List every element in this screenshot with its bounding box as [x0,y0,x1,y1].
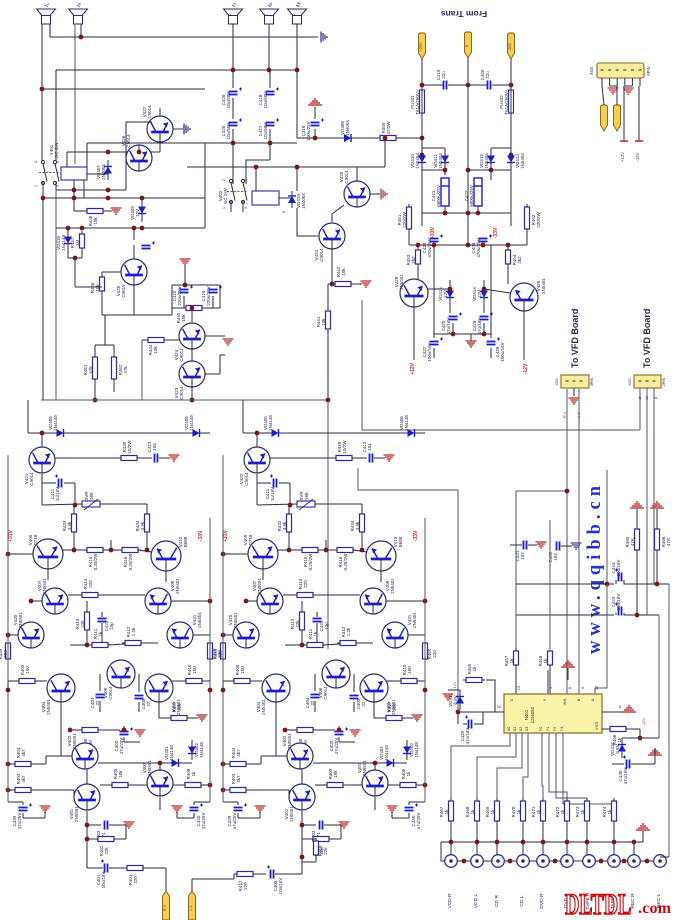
node [140,226,145,231]
svg-text:1u/16V: 1u/16V [270,487,275,501]
resistor R405 [109,783,131,788]
wire [484,289,510,293]
transistor V402 [72,743,98,769]
node [73,503,78,508]
jack VCD L [471,855,484,868]
jack VCD R [445,855,458,868]
node [451,332,456,337]
capacitor C428 [266,88,280,95]
wire [325,540,327,550]
wire XS5 pin [616,78,618,86]
node [6,762,11,767]
resistor R433 [287,511,292,535]
svg-text:47u/16V: 47u/16V [477,318,482,335]
svg-text:150: 150 [192,666,197,674]
svg-text:47u/16V: 47u/16V [623,768,628,785]
resistor R410 [183,679,205,684]
ground R407 [412,715,423,721]
svg-text:X: X [509,698,514,701]
transistor V407 [42,588,68,614]
svg-text:To VFD Board: To VFD Board [642,309,652,368]
wire [656,509,658,528]
svg-text:470u/25V: 470u/25V [427,238,432,257]
node [509,153,514,158]
node [645,859,650,864]
svg-text:U: U [233,2,237,5]
wire rail L [222,455,224,802]
wire rail R [209,518,211,690]
wire bus top [50,36,318,38]
transistor V426 [126,145,152,171]
transistor V406 [322,660,350,688]
wire [171,308,173,315]
wire [642,831,644,842]
svg-text:1k: 1k [516,809,521,815]
svg-text:CD L: CD L [519,895,525,906]
wire [323,644,340,645]
wire [159,797,161,810]
transistor V409 [248,539,278,569]
wire [87,838,98,840]
svg-text:104: 104 [367,443,372,451]
wire [328,283,332,285]
node [287,548,292,553]
transistor V403 [147,770,173,796]
resistor R415 [299,548,321,553]
svg-text:CD4052: CD4052 [530,706,535,723]
wire XS2 b [646,388,648,615]
resistor R416 [119,548,141,553]
svg-text:+12V: +12V [452,681,457,691]
resistor R407 [383,716,405,721]
wire [421,113,423,150]
wire IC to R [451,733,510,800]
svg-text:2N5401: 2N5401 [46,699,51,715]
node [565,840,570,845]
wire [408,802,410,805]
ground C413 [384,455,395,461]
capacitor C428b [487,338,501,345]
svg-text:2N5551: 2N5551 [362,760,367,776]
node [466,243,471,248]
node [383,136,388,141]
svg-text:1k: 1k [607,809,612,815]
node [541,840,546,845]
relay K2 [252,191,279,205]
wire [277,549,299,551]
node [132,226,137,231]
wire [104,315,106,345]
wire [74,210,87,212]
svg-text:1N5404: 1N5404 [484,153,489,169]
svg-text:47u/25V: 47u/25V [17,813,22,830]
jack REC L [654,855,667,868]
wire rail L [7,455,9,802]
wire XS2 c [653,388,655,584]
svg-text:T61A/250V~: T61A/250V~ [415,89,420,115]
wire [626,728,640,730]
wire [302,838,313,840]
svg-text:1N5404: 1N5404 [415,153,420,169]
svg-text:X1: X1 [513,727,517,732]
transistor V402 [287,743,313,769]
node [300,643,305,648]
connector XS4 [561,375,589,388]
svg-text:220: 220 [218,650,223,658]
wire [275,702,277,756]
svg-text:10k: 10k [341,268,346,276]
wire [448,689,460,691]
wire [387,680,401,682]
svg-text:C9014: C9014 [108,686,113,700]
node [29,599,34,604]
node [283,728,288,733]
resistor R439 [118,456,140,461]
wire [510,544,522,546]
ground V424 [223,339,234,345]
wire [528,544,537,546]
wire bus y190 [56,189,126,191]
wire [313,594,360,596]
capacitor C425 [229,119,243,126]
diode VD411 [441,148,449,170]
wire pin10 feed [595,584,607,694]
wire [444,206,446,213]
capacitor C432 [557,542,560,551]
wire [223,553,248,555]
svg-text:220: 220 [243,882,248,890]
capacitor C426 [229,88,243,95]
svg-text:0.25/2W: 0.25/2W [93,553,98,571]
wire XS5 pin [601,78,603,86]
wire bus y315 [102,314,172,316]
capacitor C416 [209,286,223,293]
svg-text:10u/50V: 10u/50V [263,92,268,109]
svg-text:10u/16V: 10u/16V [101,872,106,889]
wire IC to R [477,733,516,800]
node [330,282,335,287]
ground R466 [650,502,664,508]
wire [654,749,656,764]
wire [159,763,161,770]
svg-text:SR: SR [297,1,301,6]
svg-text:-12V: -12V [641,717,646,726]
wire jack bus [451,860,660,862]
capacitor C404 [96,695,105,698]
node [373,761,378,766]
wire [615,613,617,615]
wire [624,580,669,584]
wire [408,813,410,818]
svg-text:150: 150 [240,666,245,674]
svg-text:B688: B688 [183,536,188,547]
capacitor C413 [370,454,373,463]
wire [421,170,423,226]
node [432,243,437,248]
node [40,87,45,92]
wire [279,482,290,484]
capacitor C439 [19,804,33,811]
node [41,196,46,201]
svg-text:R: R [78,2,82,5]
svg-text:1N4148: 1N4148 [53,415,58,431]
wire [402,717,413,719]
svg-text:1k: 1k [98,631,103,637]
wire [8,553,33,555]
wire [31,763,46,765]
diode VD410 [418,148,426,170]
svg-text:47K: 47K [630,538,635,546]
wire [417,680,425,682]
wire XS2 a [639,388,641,430]
svg-text:10k: 10k [181,314,186,322]
resistor R434 [360,511,365,535]
wire [515,665,517,694]
wire [165,868,167,891]
wire [496,821,498,855]
ground C402 [350,730,361,736]
wire riser [27,400,29,433]
node [481,243,486,248]
ground XS4 [569,398,580,404]
node [612,840,617,845]
wire [101,612,103,617]
node [254,165,259,170]
wire [622,737,640,739]
svg-text:R 4: R 4 [163,905,167,911]
node [482,332,487,337]
svg-text:1M: 1M [75,240,80,247]
wire [355,457,367,459]
wire [380,570,382,582]
wire [296,167,298,191]
wire [86,811,88,825]
svg-text:2k2: 2k2 [411,256,416,264]
svg-text:C9014: C9014 [244,472,249,486]
svg-text:2N5401: 2N5401 [412,612,417,628]
wire [361,783,363,785]
capacitor C413 [155,454,158,463]
rail -12V [635,140,643,142]
node [40,431,45,436]
wire [450,821,452,855]
resistor R413 [85,609,90,633]
ground reg [466,341,477,347]
capacitor C418 [311,119,325,126]
svg-text:6PIN: 6PIN [646,66,651,75]
wire [186,762,192,764]
transistor V404 [47,674,75,702]
wire [250,680,262,682]
svg-text:+12V: +12V [410,362,416,375]
resistor R416 [334,548,356,553]
ground C430 [648,749,662,755]
wire [86,143,88,167]
wire [232,98,234,119]
wire [586,821,588,855]
wire [639,729,641,738]
wire [422,147,445,149]
svg-text:R 1: R 1 [563,412,567,418]
wire [99,701,101,712]
svg-text:6: 6 [568,687,572,689]
wire [636,550,638,615]
wire [232,24,234,88]
resistor R455 [463,678,485,683]
svg-text:22k: 22k [392,703,397,711]
wire [313,762,379,764]
wire [477,206,479,213]
node [605,582,610,587]
wire [128,784,147,786]
wire IC to R [556,733,587,800]
resistor R412 [337,641,359,646]
diode VD413 [507,148,515,170]
svg-text:47/2W: 47/2W [386,121,391,135]
wire [549,665,551,694]
wire [313,729,335,731]
wire [233,874,235,879]
svg-text:150: 150 [25,666,30,674]
wire [8,680,19,682]
wire [191,879,193,891]
node [267,68,272,73]
node [109,548,114,553]
wire relay-diode [87,173,108,175]
wire [60,702,62,756]
wire bus y198 [43,197,205,199]
svg-text:3.9k: 3.9k [140,521,145,530]
wire [98,762,164,764]
wire [22,813,24,818]
svg-text:1.2k: 1.2k [131,627,136,636]
svg-text:10k: 10k [321,318,326,326]
ground V427 [184,124,190,135]
wire [246,160,270,178]
wire [315,503,362,505]
svg-text:1u/16V: 1u/16V [55,487,60,501]
wire [633,842,635,855]
wire [113,345,115,357]
svg-text:X0: X0 [507,727,511,732]
svg-text:4k7: 4k7 [236,749,241,757]
wire [441,842,451,861]
svg-text:220u/25V: 220u/25V [206,286,211,305]
wire [230,201,232,212]
svg-text:6.8V: 6.8V [615,744,620,753]
node [632,840,637,845]
node [553,859,558,864]
capacitor C406 [267,866,274,879]
transistor V431 [167,622,193,648]
wire [301,825,303,839]
wire [146,532,148,550]
svg-text:22u: 22u [485,71,490,79]
diode VD406 [399,429,423,437]
resistor R411 [89,643,111,648]
svg-text:INH: INH [562,698,567,705]
capacitor C423 [430,235,444,242]
wire [87,867,103,869]
wire [98,729,120,731]
svg-text:2N5551: 2N5551 [257,578,262,594]
svg-text:1N4148: 1N4148 [384,745,389,761]
node [324,548,329,553]
svg-text:12V: 12V [135,209,140,217]
node [420,83,425,88]
svg-text:2N5551: 2N5551 [399,274,404,290]
resistor R456 [607,727,629,732]
svg-text:1k: 1k [470,809,475,815]
wire [433,245,435,338]
svg-text:22k: 22k [177,703,182,711]
wire [340,825,342,839]
svg-text:C9014: C9014 [323,686,328,700]
svg-text:100u/16V: 100u/16V [427,342,432,361]
node [585,840,590,845]
wire [133,285,135,315]
wire [73,507,75,514]
svg-text:ck: ck [645,396,649,400]
wire XS5 pin [624,78,626,86]
switch S1 [39,160,60,184]
node [466,168,471,173]
svg-text:1N4148: 1N4148 [268,415,273,431]
wire [612,763,624,765]
wire [101,272,103,277]
wire [238,817,260,819]
resistor R413 [300,609,305,633]
wire [353,550,367,552]
wire [143,867,166,869]
svg-text:From Trans: From Trans [441,9,488,19]
svg-text:DVD R: DVD R [539,893,545,909]
capacitor C403 [105,821,108,830]
diode VD406 [184,429,208,437]
wire [314,129,316,138]
wire [490,245,492,338]
wire [102,271,121,273]
resistor R465 [635,526,640,553]
wire [660,856,669,858]
diode VD407 [104,160,112,180]
transistor V428 [400,279,428,307]
wire [522,821,524,855]
svg-text:10/2W: 10/2W [127,440,132,454]
svg-text:-25V: -25V [507,42,512,51]
resistor R418 [314,838,319,858]
wire [370,193,380,195]
resistor R459 [221,640,226,662]
svg-text:9: 9 [581,687,585,689]
wire [356,167,358,181]
wire [223,801,238,803]
node [106,188,111,193]
resistor R402 [310,837,332,842]
svg-text:L: L [46,3,50,5]
wire right edge [668,584,670,857]
node [231,141,236,146]
wire [146,783,148,785]
svg-text:Y3: Y3 [560,727,564,732]
svg-text:50k: 50k [304,492,309,500]
svg-text:3.9k: 3.9k [282,521,287,530]
wire [602,728,609,730]
wire [257,504,297,505]
svg-text:+33V: +33V [223,529,229,542]
fuse FU402 [509,90,514,113]
wire [123,726,125,730]
